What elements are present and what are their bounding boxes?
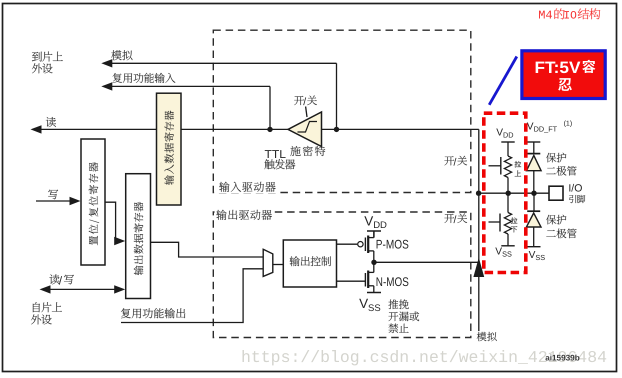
diode protection top	[527, 153, 540, 155]
svg-text:N-MOS: N-MOS	[376, 275, 409, 289]
arrow read left	[31, 125, 42, 133]
label analog bottom	[477, 332, 497, 341]
wire set/reset to output data register	[105, 202, 117, 241]
svg-text:M4: M4	[538, 9, 552, 23]
svg-text:IO: IO	[563, 11, 577, 23]
svg-text:TTL: TTL	[265, 149, 287, 161]
wire read/write	[50, 288, 116, 290]
label alternate function output	[121, 308, 185, 318]
svg-text:V: V	[359, 296, 368, 311]
blue callout line	[489, 57, 517, 105]
label protection diode bottom	[546, 215, 566, 225]
label to on-chip peripheral	[32, 51, 63, 61]
hysteresis symbol	[298, 122, 318, 133]
label alternate function input	[113, 73, 176, 83]
dashed box output driver	[213, 212, 471, 338]
diode protection bottom	[533, 193, 535, 211]
label output driver	[215, 208, 274, 221]
arrow read/write left	[40, 285, 51, 293]
output control box	[283, 240, 336, 287]
power VSS bar diode	[527, 246, 541, 248]
wire alternate function output	[121, 269, 263, 323]
label read	[46, 117, 56, 127]
arrow af input left	[101, 82, 112, 90]
label write	[48, 190, 58, 200]
node pull junction	[506, 191, 511, 196]
io pin square	[549, 186, 563, 200]
label input driver	[217, 181, 278, 194]
node pmos nmos junction	[371, 260, 376, 265]
label from on-chip peripheral	[33, 302, 62, 312]
arrow analog up	[473, 258, 484, 278]
power VSS bar pulldown	[501, 245, 514, 247]
label push-pull open-drain disabled	[388, 299, 408, 309]
arrow read/write right	[114, 285, 125, 293]
svg-text:/: /	[454, 156, 457, 168]
svg-text:SS: SS	[368, 303, 381, 314]
label read/write	[49, 274, 59, 284]
label on/off schmitt	[294, 96, 304, 105]
svg-text:(1): (1)	[564, 119, 573, 127]
FT 5V tolerant box	[522, 51, 605, 99]
node schmitt input junction	[334, 127, 339, 132]
svg-text:P-MOS: P-MOS	[376, 237, 409, 251]
wire analog top	[111, 62, 337, 64]
svg-text:/: /	[454, 214, 457, 226]
svg-text:SS: SS	[535, 253, 545, 262]
wire vdd to pmos	[373, 231, 375, 238]
resistor pull-down	[507, 193, 509, 212]
arrow analog left	[101, 59, 112, 67]
svg-text:SS: SS	[502, 249, 512, 258]
power VDD bar pullup	[501, 141, 514, 143]
transistor N-MOS	[337, 280, 366, 282]
wire read line	[41, 128, 289, 130]
wire mos output to pin column	[374, 261, 479, 263]
svg-text:I/O: I/O	[568, 182, 582, 194]
label on/off right 1	[444, 156, 454, 165]
svg-text:FT:5V: FT:5V	[535, 59, 581, 77]
node diode junction	[531, 191, 536, 196]
power VDD_FT bar	[527, 141, 540, 143]
arrow write	[70, 197, 81, 205]
label on/off right 2	[444, 214, 454, 223]
svg-text:DD_FT: DD_FT	[534, 124, 558, 133]
wire io line	[479, 192, 549, 194]
node io junction	[476, 191, 481, 196]
wire pin column vertical	[478, 129, 480, 331]
switch gate pull-down	[499, 214, 501, 232]
red dashed highlight box	[484, 113, 526, 272]
label analog top	[111, 50, 132, 60]
svg-text:DD: DD	[503, 130, 514, 139]
svg-text:DD: DD	[373, 220, 387, 231]
register bit set/reset	[81, 139, 105, 265]
wire mux out	[273, 264, 284, 266]
resistor pull-up	[504, 156, 511, 178]
wire schmitt right to pin column	[322, 128, 479, 130]
power VDD bar mos	[367, 230, 381, 232]
label pull-down	[511, 217, 518, 223]
dashed box input driver	[213, 30, 471, 192]
wire write	[36, 200, 72, 202]
wire on/off to schmitt	[306, 107, 307, 118]
switch gate pull-up	[500, 157, 502, 175]
label pull-up	[515, 161, 522, 167]
schmitt trigger TTL	[288, 112, 322, 147]
svg-text:/: /	[303, 96, 306, 108]
svg-text:V: V	[364, 213, 373, 228]
register input data	[157, 93, 182, 205]
node af-input junction	[267, 127, 272, 132]
power VSS bar mos	[367, 292, 381, 294]
mux	[263, 249, 273, 276]
wire output data register to mux	[151, 242, 264, 257]
register output data	[126, 174, 151, 299]
svg-text:ai15939b: ai15939b	[545, 353, 580, 362]
label protection diode top	[546, 153, 566, 163]
wire alternate function input	[111, 85, 270, 87]
transistor P-MOS	[337, 243, 358, 245]
